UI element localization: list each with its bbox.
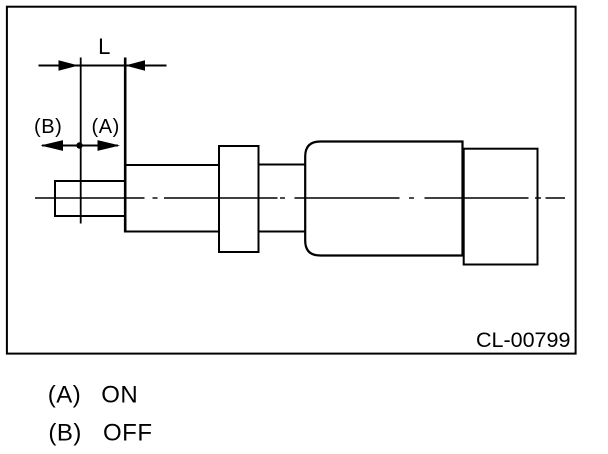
- svg-text:(B): (B): [34, 116, 62, 138]
- svg-text:ON: ON: [101, 382, 138, 409]
- svg-text:(B): (B): [48, 420, 82, 447]
- svg-text:CL-00799: CL-00799: [476, 328, 570, 352]
- svg-text:L: L: [98, 34, 110, 59]
- svg-text:(A): (A): [91, 116, 119, 138]
- svg-text:OFF: OFF: [103, 420, 153, 447]
- svg-text:(A): (A): [48, 382, 82, 409]
